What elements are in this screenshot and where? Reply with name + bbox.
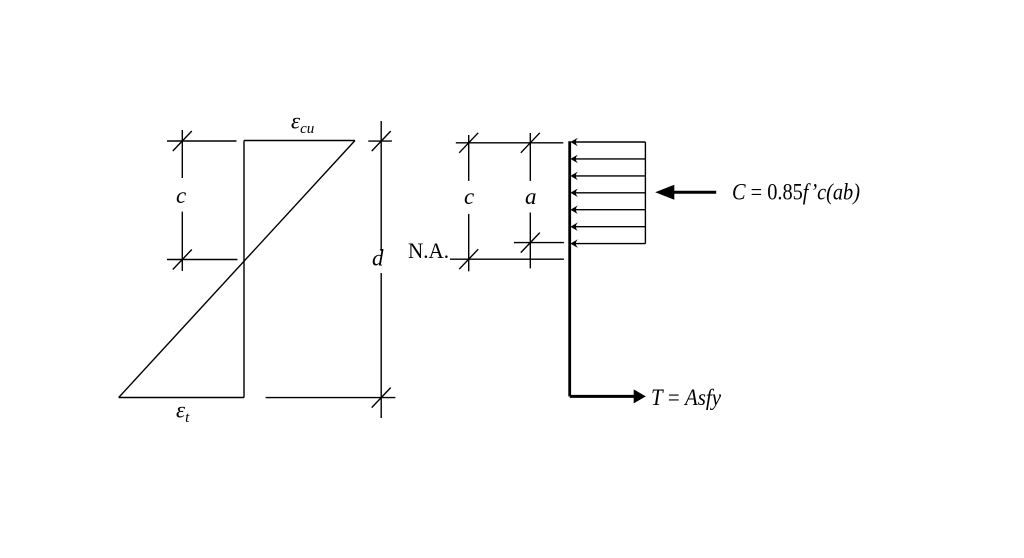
- stress arrow 7: [570, 239, 645, 248]
- extension line at bottom of stress block (a): [514, 242, 564, 244]
- tick bar at top of d dimension: [368, 140, 392, 142]
- tick slash at top of c dimension (right): [459, 133, 478, 153]
- svg-text:a: a: [525, 184, 537, 209]
- extension line at top fiber (right): [456, 142, 564, 144]
- dimension line d upper segment: [380, 121, 382, 251]
- svg-text:T = Asfy: T = Asfy: [651, 385, 722, 410]
- wire: strain diagram bottom edge: [119, 397, 244, 399]
- wire: strain profile vertical axis: [243, 141, 245, 398]
- svg-text:c: c: [176, 183, 186, 208]
- stress arrow 6: [570, 222, 645, 231]
- wire: strain diagram top edge: [244, 140, 355, 142]
- stress arrow 4: [570, 189, 645, 198]
- force arrow C (resultant compression): [655, 185, 716, 200]
- tick slash at bottom of a dimension: [521, 233, 540, 253]
- extension line at neutral axis (right): [450, 258, 564, 260]
- dimension line c (left) upper segment: [181, 130, 183, 178]
- extension line at bottom of d dimension: [266, 397, 396, 399]
- dimension line c (right) upper segment: [468, 135, 470, 181]
- tick slash at top of d dimension: [372, 131, 391, 151]
- svg-text:d: d: [372, 246, 384, 271]
- extension line at neutral axis (left): [167, 259, 238, 261]
- dimension line a lower segment: [529, 213, 531, 269]
- stress arrow 1: [570, 138, 645, 147]
- tick slash at bottom of c dimension (right): [459, 249, 478, 269]
- svg-text:c: c: [464, 184, 474, 209]
- dimension line c (left) lower segment: [181, 212, 183, 271]
- force arrow T (tension): [570, 389, 646, 403]
- stress arrow 2: [570, 155, 645, 164]
- wire: stress block right edge: [644, 142, 646, 244]
- svg-text:C = 0.85f’c(ab): C = 0.85f’c(ab): [732, 179, 860, 204]
- tick slash at top of a dimension: [521, 133, 540, 153]
- stress arrow 3: [570, 172, 645, 181]
- tick slash at top of c dimension (left): [173, 131, 192, 151]
- tick slash at N.A. of c dimension (left): [173, 250, 192, 270]
- svg-text:N.A.: N.A.: [408, 238, 449, 263]
- dimension line d lower segment: [380, 273, 382, 418]
- extension line at top fiber (left): [167, 140, 237, 142]
- wire: section face (thick vertical line): [568, 141, 571, 396]
- tick slash at bottom of d dimension: [372, 388, 391, 408]
- dimension line c (right) lower segment: [468, 214, 470, 271]
- dimension line a upper segment: [529, 133, 531, 181]
- wire: strain diagonal line: [119, 141, 355, 398]
- stress arrow 5: [570, 205, 645, 214]
